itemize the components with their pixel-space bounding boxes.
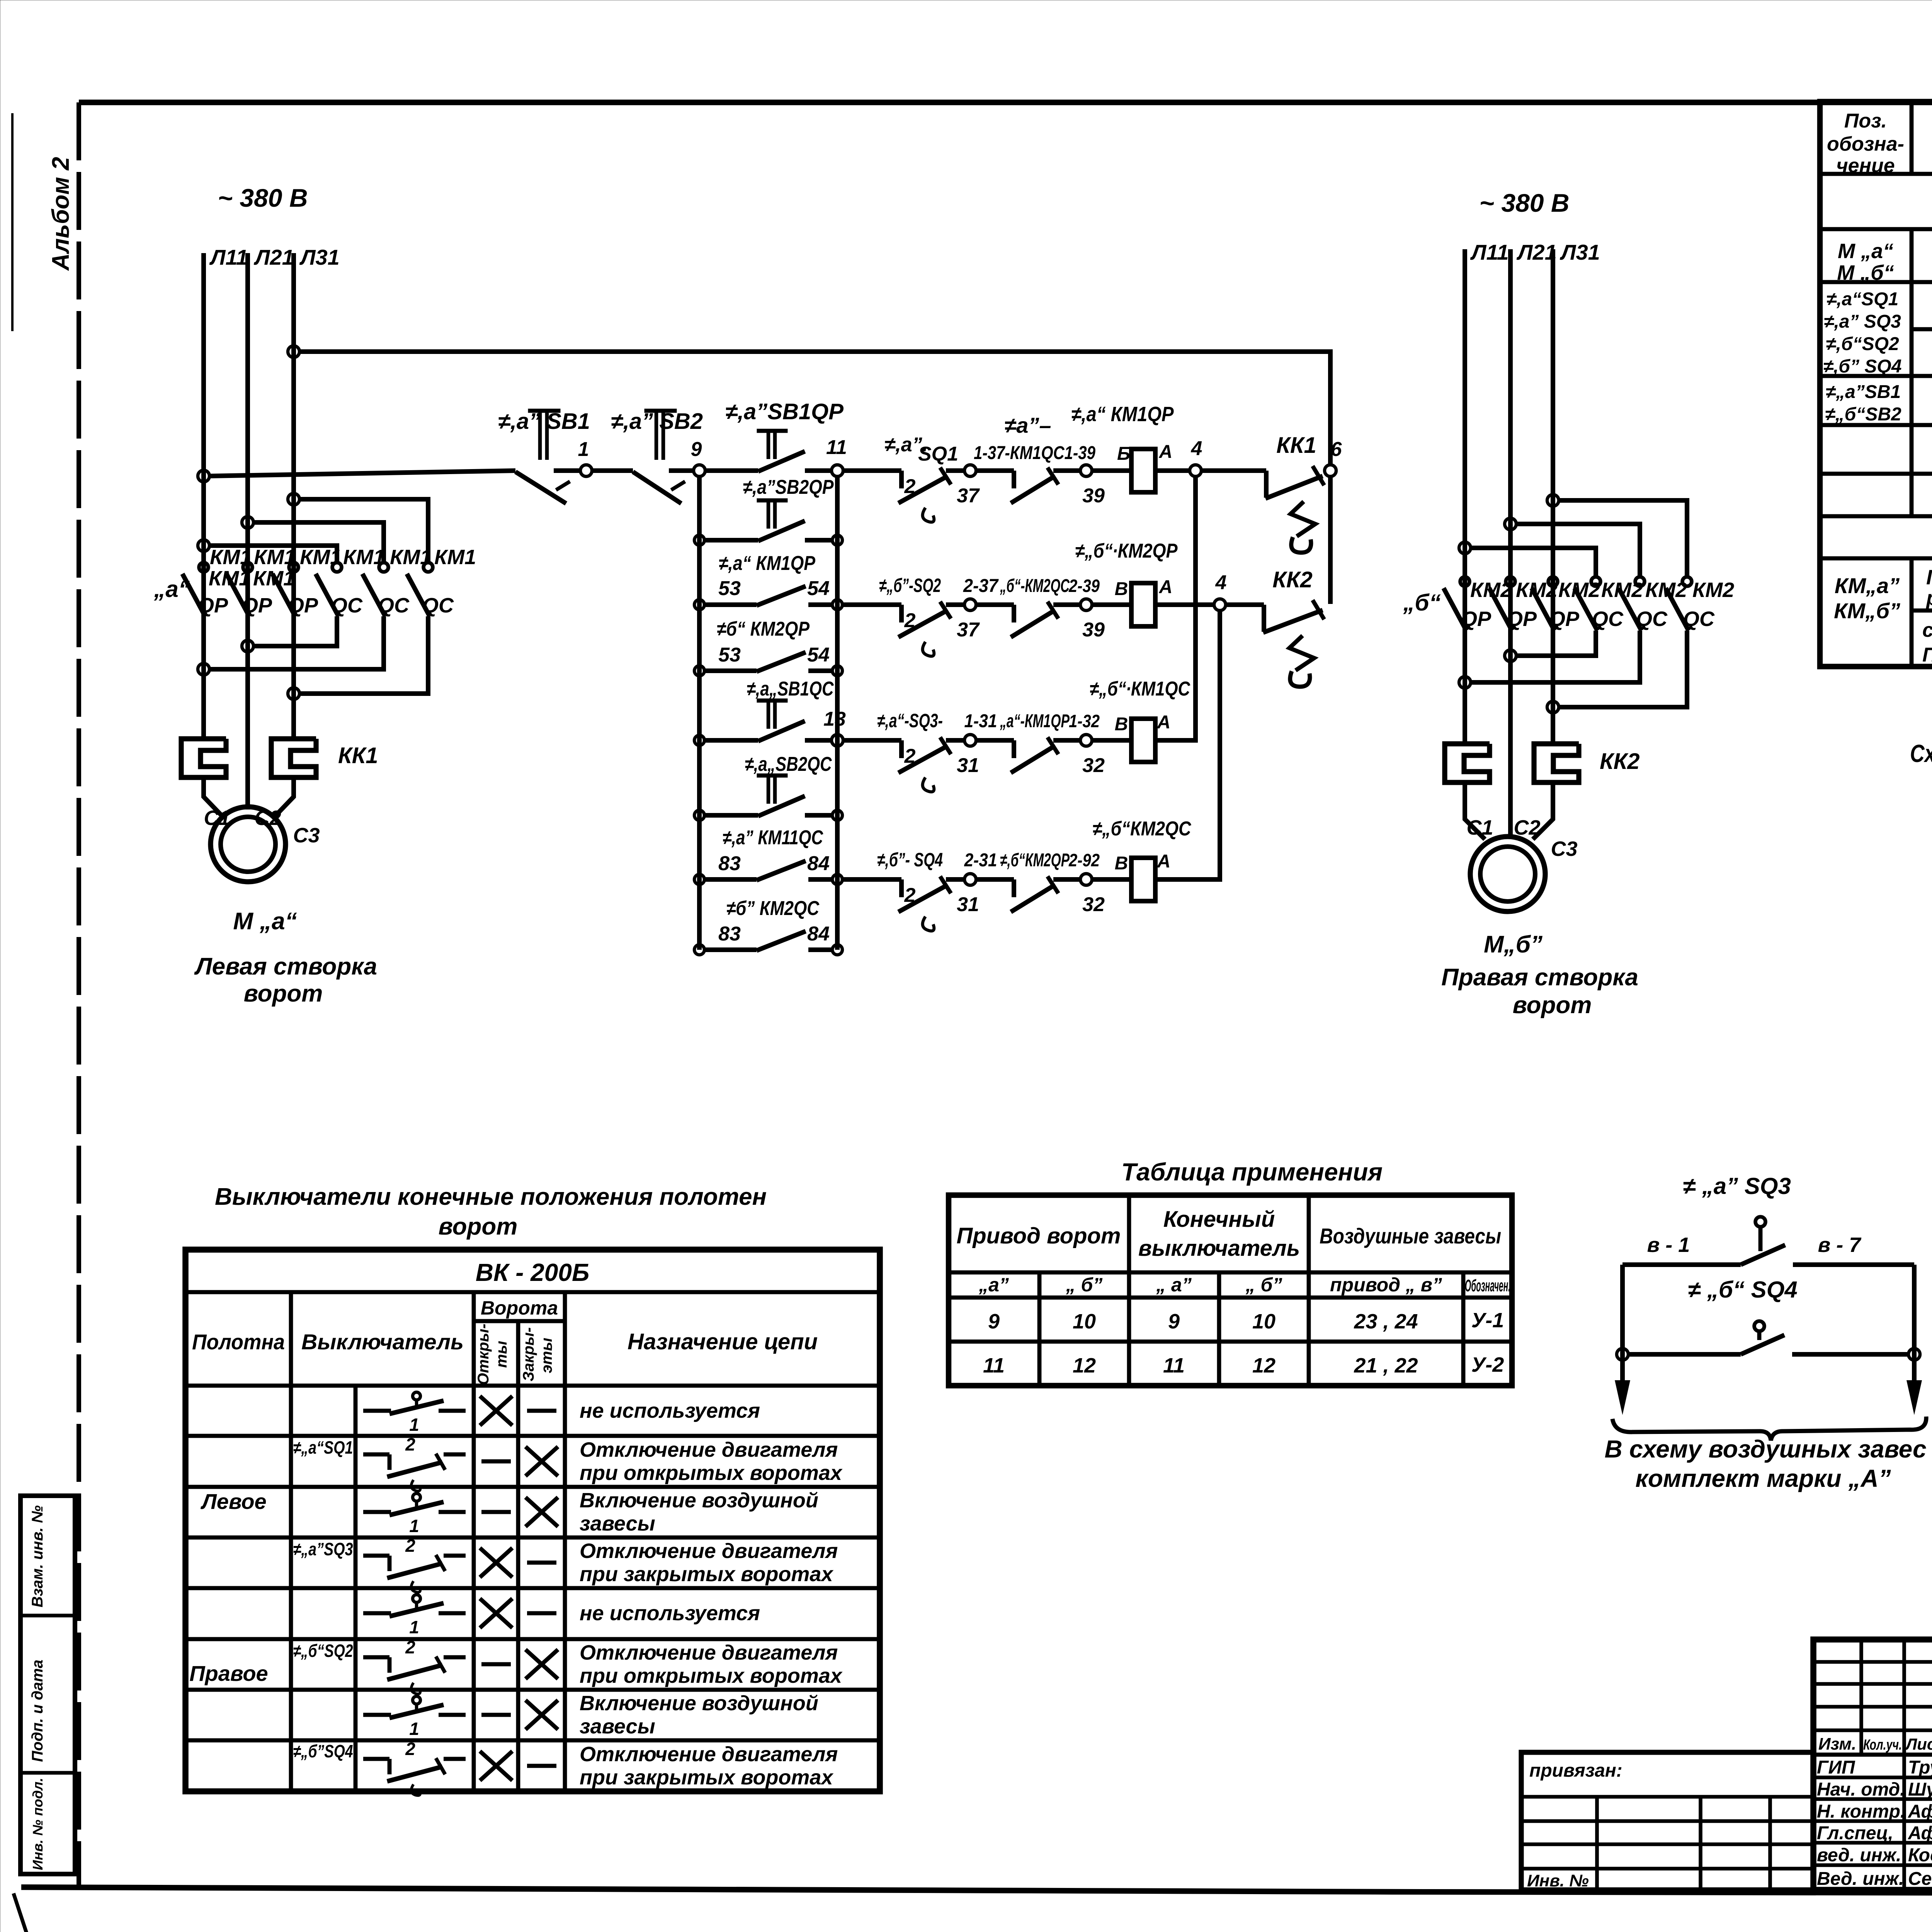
wire SB2 to node9 (669, 468, 694, 473)
svg-text:≠,б”- SQ4: ≠,б”- SQ4 (877, 849, 943, 871)
contactor contact KM1 QP1 (199, 563, 208, 572)
auxiliary button contact SB1QC (757, 699, 788, 703)
wire crossover L31 to QC3 (299, 499, 428, 562)
wire coil KM2QC up to node4b (1155, 610, 1220, 879)
privyazan table frame (1521, 1752, 1813, 1890)
svg-text:≠„б“SQ2: ≠„б“SQ2 (293, 1641, 353, 1661)
svg-text:„ б”: „ б” (1245, 1274, 1282, 1296)
svg-text:53: 53 (718, 577, 741, 600)
privyazan table lines (1521, 1795, 1813, 1799)
wire QC2 return to L11 (209, 616, 384, 669)
wire QC1 return to L21 (253, 616, 337, 646)
stray scan mark left margin (11, 113, 14, 331)
svg-text:C2: C2 (1514, 816, 1540, 839)
wire node11 to SQ1 (843, 468, 901, 473)
svg-text:завесы: завесы (580, 1512, 655, 1535)
svg-text:при открытых воротах: при открытых воротах (580, 1664, 843, 1687)
svg-text:Правое: Правое (189, 1661, 268, 1685)
svg-text:„ а”: „ а” (1156, 1274, 1192, 1296)
wire rung KM2QP54 right (808, 668, 834, 673)
svg-text:2-39: 2-39 (1068, 576, 1100, 596)
svg-text:QP: QP (1549, 607, 1580, 631)
svg-text:комплект марки „А”: комплект марки „А” (1635, 1464, 1891, 1492)
node left rail SB1QC (694, 735, 704, 745)
svg-text:2-92: 2-92 (1068, 850, 1100, 870)
node 31 rung3 (964, 735, 976, 746)
svg-text:В: В (1115, 714, 1128, 735)
svg-text:КМ1: КМ1 (300, 546, 342, 569)
svg-text:М „б“: М „б“ (1837, 261, 1894, 284)
vk row 8 open mark (480, 1751, 512, 1781)
contactor contact KM2 QP3 (1548, 577, 1558, 586)
sheet frame bottom border (21, 1887, 1932, 1894)
wire KM2QP to node32b (1053, 877, 1080, 882)
wire crossover L11r to QC4 (1470, 548, 1596, 577)
svg-text:12: 12 (1073, 1354, 1096, 1377)
svg-text:М „а“: М „а“ (1838, 240, 1893, 263)
title block rev grid verticals (1859, 1639, 1863, 1755)
svg-text:11: 11 (983, 1354, 1005, 1377)
svg-text:53: 53 (718, 644, 741, 666)
wire node32b to coil KM2QC (1092, 877, 1131, 882)
svg-text:1: 1 (578, 438, 589, 461)
svg-text:привязан:: привязан: (1529, 1760, 1622, 1781)
svg-text:≠б” КМ2QC: ≠б” КМ2QC (726, 897, 820, 920)
node 37 (964, 465, 976, 476)
svg-text:Афанина: Афанина (1908, 1801, 1932, 1822)
thermal element KK2 phase3 (1534, 744, 1579, 782)
svg-text:A: A (1159, 442, 1173, 462)
svg-text:2: 2 (405, 1637, 415, 1657)
svg-text:10: 10 (1073, 1310, 1096, 1333)
svg-text:вед. инж.: вед. инж. (1817, 1845, 1901, 1866)
svg-text:КМ1: КМ1 (209, 567, 250, 590)
svg-text:84: 84 (807, 852, 830, 875)
wire rung SB2QC left (703, 813, 758, 818)
wire QC4 return to L21r (1515, 631, 1596, 656)
side table frame (20, 1496, 75, 1874)
node 32 rung3 (1080, 735, 1092, 746)
svg-text:≠,а”SB2QP: ≠,а”SB2QP (743, 476, 834, 498)
svg-text:ВК - 200Б: ВК - 200Б (476, 1259, 590, 1286)
wire QC6 return to L31r (1558, 631, 1687, 707)
node L31 right crossover tap (1547, 495, 1559, 506)
svg-text:≠,б“КМ2QP: ≠,б“КМ2QP (1000, 850, 1070, 871)
auxiliary button contact SB2QC (757, 774, 788, 778)
node left rail SB2QC (694, 810, 704, 820)
wire rung KM2QC83 left (703, 947, 757, 952)
thermal element KK1 phase1 (181, 739, 226, 777)
vk row 2 switch symbol (363, 1452, 389, 1457)
svg-text:ПКл - 2004, реле РТЛ- 1008: ПКл - 2004, реле РТЛ- 100804 ; 3,2А (1922, 644, 1932, 666)
wire coil KM2QP to node4b (1155, 602, 1214, 607)
svg-text:~ 380 В: ~ 380 В (1480, 189, 1570, 217)
wire rung1 start from L11 (209, 471, 515, 476)
wire rung KM1QC83 left (703, 877, 757, 882)
svg-text:QC: QC (1683, 607, 1715, 631)
svg-text:чение: чение (1836, 155, 1895, 177)
vk row 2 closed mark (526, 1447, 558, 1476)
svg-text:≠ „а” SQ3: ≠ „а” SQ3 (1683, 1173, 1791, 1199)
svg-text:≠„б”SQ4: ≠„б”SQ4 (293, 1741, 353, 1761)
svg-text:≠,а“ КМ1QP: ≠,а“ КМ1QP (1071, 403, 1174, 426)
svg-text:КК2: КК2 (1600, 749, 1640, 774)
node 4 rung2 (1214, 599, 1226, 611)
arrow air curtain right (1912, 1354, 1917, 1387)
wire rung KM1QP54 right (808, 602, 834, 607)
contactor contact KM2 QP1 (1460, 577, 1469, 586)
svg-text:83: 83 (718, 923, 741, 945)
svg-text:11: 11 (1163, 1354, 1185, 1377)
svg-text:Семашко: Семашко (1908, 1869, 1932, 1889)
parts table vertical lines (1910, 102, 1914, 174)
svg-text:2: 2 (904, 745, 916, 767)
svg-text:ворот: ворот (244, 980, 323, 1007)
node 13 (832, 735, 843, 746)
svg-text:В: В (1115, 579, 1128, 599)
svg-text:Откры-: Откры- (475, 1324, 492, 1385)
svg-text:КК1: КК1 (338, 743, 378, 768)
relay contact KM1QC in rung1 (1012, 471, 1016, 488)
node L11 control rung tap (198, 470, 209, 482)
vk row 2 open mark (481, 1459, 511, 1464)
contactor contact KM1 QC4 (332, 563, 342, 572)
svg-text:54: 54 (807, 644, 830, 666)
auxiliary contact KM2QC 83-84 (757, 931, 806, 951)
svg-text:Инв. №: Инв. № (1527, 1871, 1589, 1890)
svg-text:≠,а“-SQ3-: ≠,а“-SQ3- (877, 710, 943, 731)
svg-text:Полотна: Полотна (192, 1330, 285, 1354)
svg-text:4: 4 (1215, 571, 1227, 594)
node L21 right crossover tap (1505, 518, 1516, 530)
svg-text:6: 6 (1331, 438, 1342, 461)
node QC3-L31 join (288, 688, 299, 699)
svg-text:В схему воздушных завес: В схему воздушных завес (1604, 1435, 1926, 1463)
svg-text:Л31: Л31 (1560, 240, 1600, 264)
side table lines (20, 1614, 75, 1617)
wire ladder right rail (835, 476, 840, 950)
svg-text:ты: ты (493, 1341, 510, 1368)
vk table vorota split (474, 1319, 565, 1323)
node left rail KM1QC83 (694, 874, 704, 884)
svg-text:32: 32 (1082, 893, 1105, 916)
svg-text:Отключение двигателя: Отключение двигателя (580, 1743, 838, 1766)
svg-text:Трушин: Трушин (1908, 1757, 1932, 1778)
svg-text:A: A (1157, 851, 1171, 872)
svg-text:реверсивный с катушкой 38: реверсивный с катушкой 380В (1925, 587, 1932, 610)
coil KM2QC (1131, 858, 1155, 901)
wire node4 to KK1 contact (1201, 468, 1266, 473)
limit switch contact SQ3 (899, 740, 904, 758)
wire QC5 return to L11r (1470, 631, 1640, 682)
svg-text:Конечный: Конечный (1163, 1207, 1275, 1232)
svg-text:1: 1 (409, 1516, 419, 1536)
node 39 (1080, 465, 1092, 476)
svg-text:Левое: Левое (200, 1489, 266, 1514)
svg-text:привод „ в”: привод „ в” (1330, 1274, 1442, 1296)
svg-text:Выключатели конечные по: Выключатели конечные положения полотен (215, 1184, 767, 1210)
svg-text:QC: QC (1636, 607, 1668, 631)
svg-text:≠„а”SВ1: ≠„а”SВ1 (1826, 382, 1901, 402)
svg-text:1: 1 (409, 1719, 419, 1739)
svg-text:≠,б“SQ2: ≠,б“SQ2 (1826, 334, 1899, 354)
node L31 crossover tap (288, 493, 299, 505)
wire KM1QP to node32 (1053, 738, 1080, 743)
wire rung KM2QC84 right (808, 947, 834, 952)
auxiliary contact KM1QC 83-84 (757, 861, 806, 880)
svg-text:Обозначен.: Обозначен. (1465, 1276, 1510, 1295)
svg-text:Инв. № подл.: Инв. № подл. (30, 1778, 46, 1870)
wire rung SB2QP right (805, 538, 834, 543)
push button SB2 (645, 409, 677, 413)
svg-text:Л31: Л31 (299, 245, 340, 269)
motor M b (1470, 837, 1545, 912)
relay contact KM2QP in rung4 (1012, 879, 1016, 897)
svg-text:Б: Б (1117, 444, 1130, 464)
vk row 7 switch symbol (363, 1713, 391, 1717)
vk table outer frame (185, 1250, 880, 1791)
thermal contact KK2 (1262, 605, 1266, 632)
limit switch contact SQ4 (899, 879, 904, 897)
wire KM1QC to node39 (1053, 468, 1080, 473)
svg-text:в - 7: в - 7 (1818, 1233, 1862, 1257)
motor M a (211, 807, 286, 882)
svg-text:Нач. отд.: Нач. отд. (1817, 1779, 1905, 1800)
svg-text:≠„а“SQ1: ≠„а“SQ1 (293, 1437, 353, 1458)
svg-text:Шунский: Шунский (1908, 1779, 1932, 1800)
svg-text:не используется: не используется (580, 1602, 760, 1625)
svg-text:2: 2 (904, 609, 916, 632)
relay contact KM2QC in rung2 (1012, 605, 1016, 622)
wire rung SB1QC left (703, 738, 758, 743)
vk row 1 closed mark (527, 1409, 556, 1413)
wire rung SB1QC right (805, 738, 832, 743)
vk row 5 open mark (480, 1599, 512, 1628)
svg-text:Н. контр.: Н. контр. (1817, 1801, 1905, 1822)
svg-text:при закрытых воротах: при закрытых воротах (580, 1563, 833, 1586)
node left rail KM2QP53 (694, 666, 704, 676)
node 32 rung4 (1080, 874, 1092, 885)
svg-text:9: 9 (1168, 1310, 1180, 1333)
limit switch contact SQ1 (899, 471, 904, 488)
svg-text:Афонина: Афонина (1908, 1823, 1932, 1844)
svg-text:≠,а” SQ3: ≠,а” SQ3 (1824, 311, 1901, 332)
wire node to SQ4 (841, 877, 901, 882)
wire node32 to coil KM1QC (1092, 738, 1131, 743)
parts table split line VK200B (1912, 327, 1932, 332)
svg-text:Л11: Л11 (209, 245, 248, 269)
svg-text:≠„б“SB2: ≠„б“SB2 (1825, 404, 1901, 425)
svg-text:КМ1: КМ1 (253, 567, 295, 590)
svg-text:У-2: У-2 (1471, 1353, 1504, 1376)
contactor contact KM2 QC4 (1591, 577, 1600, 586)
svg-text:Схему подключения см. лист: Схему подключения см. лист 8. (1910, 740, 1932, 767)
auxiliary contact KM1QP 53-54 (757, 586, 806, 605)
svg-text:У-1: У-1 (1471, 1309, 1504, 1332)
wire QC3 return to L31 (299, 616, 428, 694)
svg-text:2: 2 (405, 1739, 415, 1759)
svg-text:Воздушные завесы: Воздушные завесы (1320, 1224, 1501, 1248)
limit switch SQ3 air curtain (1755, 1217, 1765, 1227)
wire node31 to KM1QP contact (976, 738, 1014, 743)
svg-text:Изм.: Изм. (1818, 1735, 1856, 1753)
vk table horizontal lines (185, 1290, 880, 1294)
svg-text:КМ„а”: КМ„а” (1835, 573, 1900, 598)
svg-text:М„б”: М„б” (1484, 931, 1543, 958)
svg-text:Гл.спец,: Гл.спец, (1817, 1823, 1893, 1844)
wire phase2 to motor b (1508, 810, 1513, 837)
wire coil KM1QP to node4 (1155, 468, 1190, 473)
svg-text:23 , 24: 23 , 24 (1354, 1310, 1418, 1333)
svg-text:при закрытых воротах: при закрытых воротах (580, 1766, 833, 1789)
wire crossover L31r to QC6 (1558, 500, 1687, 577)
svg-text:„а“-КМ1QP: „а“-КМ1QP (1000, 711, 1070, 731)
vk row 4 open mark (480, 1548, 512, 1577)
wire node13 to SQ3 (843, 738, 901, 743)
node L31 top rail tap (288, 346, 299, 357)
node L11 right crossover tap (1459, 542, 1471, 554)
svg-text:C3: C3 (293, 824, 320, 847)
wire crossover L11 to QC1 (209, 546, 337, 562)
limit switch contact SQ2 (899, 605, 904, 622)
vk row 5 switch symbol (363, 1611, 391, 1616)
svg-text:QP: QP (1507, 607, 1537, 631)
wire rung KM1QC84 right (808, 877, 834, 882)
wire phase L11 left (201, 253, 206, 740)
vk row 1 open mark (480, 1396, 512, 1425)
svg-text:SQ1: SQ1 (918, 443, 958, 465)
wire phase L31 right (1551, 249, 1555, 745)
svg-text:не используется: не используется (580, 1399, 760, 1422)
thermal contact KK1 (1264, 471, 1269, 498)
svg-text:Включение воздушной: Включение воздушной (580, 1692, 818, 1715)
coil KM1QC (1131, 719, 1155, 762)
svg-text:84: 84 (807, 923, 830, 945)
svg-text:4: 4 (1191, 437, 1202, 460)
arrow air curtain left (1621, 1354, 1625, 1387)
wire air curtain left drop (1620, 1265, 1625, 1391)
svg-text:КМ„б”: КМ„б” (1834, 599, 1900, 623)
wire air curtain right drop (1912, 1265, 1917, 1391)
node right rail SB2QP (832, 535, 842, 545)
svg-text:ГИП: ГИП (1817, 1757, 1855, 1778)
svg-text:Лист: Лист (1905, 1735, 1932, 1753)
push button SB1 (528, 409, 561, 413)
svg-text:≠„б“∙КМ2QP: ≠„б“∙КМ2QP (1075, 540, 1178, 562)
vk row 7 closed mark (526, 1700, 558, 1730)
svg-text:Отключение двигателя: Отключение двигателя (580, 1438, 838, 1461)
svg-text:обозна-: обозна- (1827, 133, 1904, 155)
node right rail KM1QP54 (832, 600, 842, 610)
node QC5-L11r join (1459, 677, 1471, 688)
node L21 crossover tap (242, 517, 253, 528)
svg-text:~ 380 В: ~ 380 В (218, 184, 308, 212)
wire SB1 to node1 (554, 468, 580, 473)
svg-text:≠б“ КМ2QP: ≠б“ КМ2QP (717, 618, 810, 640)
node 31 rung4 (964, 874, 976, 885)
svg-text:32: 32 (1082, 754, 1105, 777)
svg-text:2: 2 (405, 1536, 415, 1556)
svg-text:Взам. инв. №: Взам. инв. № (29, 1505, 46, 1607)
contactor contact KM1 QC6 (423, 563, 433, 572)
wire KK1 phase3 to motor (275, 777, 294, 816)
svg-text:с1з + 2р С 2 контактными при: с1з + 2р С 2 контактными приставкам_ (1922, 619, 1932, 641)
wire control top rail (299, 352, 1330, 466)
svg-text:1: 1 (409, 1617, 419, 1637)
node left rail KM2QC83 (694, 945, 704, 955)
svg-text:ворот: ворот (439, 1213, 518, 1240)
wire SQ2 to node37b (946, 602, 964, 607)
node SQ4 right (1908, 1349, 1920, 1360)
auxiliary contact KM2QP 53-54 (757, 652, 806, 672)
svg-text:≠,а”SB1QP: ≠,а”SB1QP (725, 399, 844, 424)
svg-text:Левая створка: Левая створка (194, 953, 377, 980)
wire rung KM1QP53 left (703, 602, 757, 607)
svg-text:9: 9 (988, 1310, 1000, 1333)
vk table header verticals (289, 1292, 293, 1791)
svg-text:Отключение двигателя: Отключение двигателя (580, 1539, 838, 1563)
vk row 6 switch symbol (363, 1655, 389, 1660)
svg-text:Ворота: Ворота (481, 1297, 558, 1319)
brace air curtain (1612, 1417, 1926, 1440)
node 11 (832, 465, 843, 476)
svg-text:≠„б”-SQ2: ≠„б”-SQ2 (879, 575, 941, 596)
node L11 crossover tap (198, 540, 209, 551)
contactor contact KM1 QC5 (379, 563, 388, 572)
svg-text:39: 39 (1082, 619, 1105, 641)
svg-text:Правая створка: Правая створка (1441, 964, 1638, 991)
svg-text:М „а“: М „а“ (233, 908, 297, 935)
vk row 1 switch symbol (363, 1409, 391, 1413)
title block rev grid horizontals (1813, 1660, 1932, 1664)
svg-text:Поз.: Поз. (1844, 110, 1887, 132)
svg-text:54: 54 (807, 577, 830, 600)
svg-text:QP: QP (198, 594, 228, 617)
wire right bus KK1 to KK2 (1328, 476, 1333, 604)
node 1 (580, 465, 592, 476)
node SQ4 left (1617, 1349, 1628, 1360)
auxiliary button contact SB2QP (757, 498, 788, 503)
svg-text:выключатель: выключатель (1138, 1236, 1300, 1261)
node right rail SB2QC (832, 810, 842, 820)
node QC6-L31r join (1547, 701, 1559, 713)
node left rail SB2QP (694, 535, 704, 545)
svg-text:C3: C3 (1551, 837, 1577, 861)
wire ladder left rail (697, 476, 702, 950)
relay contact KM1QP in rung3 (1012, 740, 1016, 758)
wire SQ4 rung (1628, 1352, 1741, 1357)
svg-text:12: 12 (1252, 1354, 1276, 1377)
svg-text:Л21: Л21 (253, 245, 294, 269)
svg-text:31: 31 (957, 893, 979, 916)
contactor contact KM2 QC5 (1635, 577, 1645, 586)
svg-text:C1: C1 (1466, 816, 1493, 839)
contactor contact KM2 QP2 (1506, 577, 1515, 586)
svg-text:QC: QC (331, 594, 363, 617)
svg-text:Подп. и дата: Подп. и дата (29, 1660, 46, 1762)
svg-text:≠,а” SB2: ≠,а” SB2 (611, 409, 703, 434)
wire node37b to KM2QC contact (976, 602, 1014, 607)
parts table outer frame (1820, 102, 1932, 667)
thermal element KK1 phase3 (271, 739, 316, 777)
wire rung SB2QP left (703, 538, 758, 543)
node right rail KM2QC84 (832, 945, 842, 955)
svg-text:КМ1: КМ1 (434, 546, 476, 569)
svg-text:C1: C1 (204, 806, 230, 830)
wire node4b to KK2 contact (1226, 602, 1264, 607)
node QC2-L11 join (198, 663, 209, 675)
parts table horizontal lines (1820, 172, 1932, 176)
